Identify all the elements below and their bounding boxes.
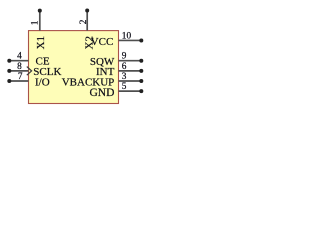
svg-text:GND: GND (89, 87, 114, 99)
svg-text:9: 9 (122, 52, 127, 62)
node dot pin8 (7, 69, 11, 73)
svg-text:X1: X1 (35, 36, 47, 49)
node dot pin9 (139, 59, 143, 63)
svg-text:10: 10 (122, 31, 132, 41)
wire pin X1 top (39, 11, 41, 31)
wire pin VBACKUP right (119, 80, 142, 82)
svg-text:3: 3 (122, 72, 127, 82)
node dot pin1 (38, 9, 42, 13)
node dot pin5 (139, 89, 143, 93)
svg-text:1: 1 (30, 20, 40, 25)
node dot pin3 (139, 79, 143, 83)
wire pin CE left (9, 60, 28, 62)
svg-text:8: 8 (17, 62, 22, 72)
wire pin GND right (119, 90, 142, 92)
wire pin SCLK left (9, 70, 28, 72)
wire pin INT right (119, 70, 142, 72)
wire pin X2 top (86, 11, 88, 31)
node dot pin2 (85, 9, 89, 13)
wire pin SQW right (119, 60, 142, 62)
svg-text:7: 7 (18, 72, 23, 82)
svg-text:I/O: I/O (35, 76, 50, 88)
node dot pin7 (7, 79, 11, 83)
node dot pin10 (139, 38, 143, 42)
svg-text:2: 2 (79, 19, 89, 24)
svg-text:6: 6 (122, 62, 127, 72)
svg-text:4: 4 (17, 52, 22, 62)
node dot pin4 (7, 59, 11, 63)
wire pin VCC right (119, 39, 142, 41)
node dot pin6 (139, 69, 143, 73)
background (0, 0, 150, 110)
wire pin I/O left (9, 80, 28, 82)
chip body U1 (29, 31, 119, 104)
clock chevron SCLK (27, 67, 32, 76)
svg-text:5: 5 (122, 82, 127, 92)
svg-text:VCC: VCC (91, 36, 114, 48)
